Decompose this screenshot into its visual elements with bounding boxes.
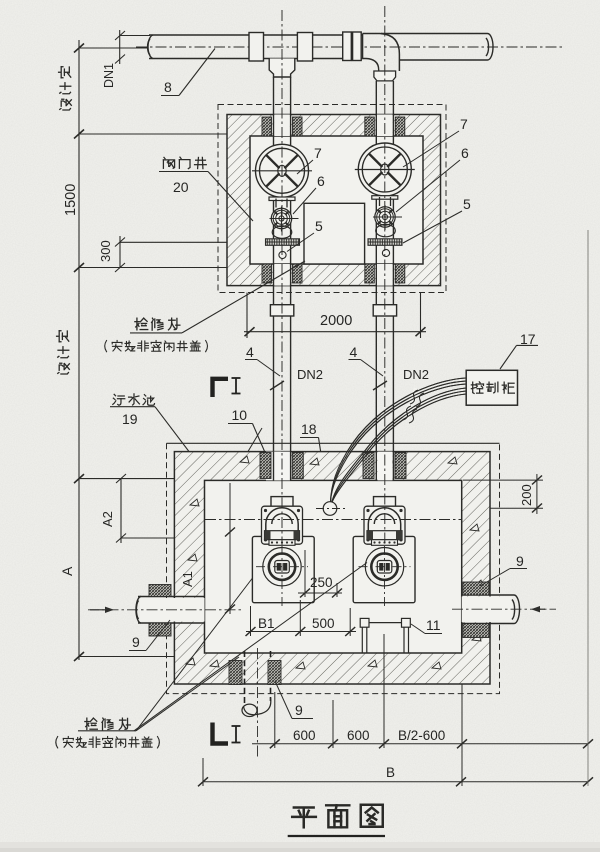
centerline left pipe column xyxy=(281,10,283,545)
section mark I bottom xyxy=(213,723,229,744)
pump clamp plate xyxy=(367,531,402,540)
pump flange plate xyxy=(364,506,405,544)
leaders from bottom inspection label xyxy=(136,657,239,731)
dimension line B xyxy=(198,758,593,786)
drain hole circle below right flange xyxy=(382,249,389,256)
dimension text A xyxy=(59,566,75,576)
valve well cover dashed outline xyxy=(218,105,446,293)
svg-text:A: A xyxy=(59,566,75,576)
label sheji-ding upper xyxy=(59,67,72,110)
pump centerline cross xyxy=(256,566,308,568)
svg-text:2000: 2000 xyxy=(320,313,352,329)
dimension line 600 600 B/2-600 xyxy=(252,634,593,786)
pipe wall crossings into tank xyxy=(274,452,386,481)
dimension text 1500 xyxy=(63,184,79,216)
svg-text:600: 600 xyxy=(293,728,316,743)
pump body circles xyxy=(263,548,301,586)
dimension A1 xyxy=(225,483,235,614)
check valve 6 left xyxy=(275,199,277,208)
label (install non-sealed cover) bottom xyxy=(56,736,58,747)
drain pipe end loop xyxy=(244,698,271,715)
pump centerline cross xyxy=(359,566,411,568)
centerline right pipe column xyxy=(384,6,386,545)
svg-text:DN1: DN1 xyxy=(102,63,116,88)
pump body circles xyxy=(365,548,403,586)
cable entry circle 18 xyxy=(323,502,337,516)
pipe segments inside well xyxy=(274,136,394,264)
svg-text:7: 7 xyxy=(314,145,322,161)
valve well outer wall xyxy=(227,115,441,286)
pipe interiors through well walls xyxy=(274,115,393,286)
svg-text:B/2-600: B/2-600 xyxy=(398,728,445,743)
pump elbow semicircle xyxy=(368,508,400,531)
svg-text:8: 8 xyxy=(164,79,172,95)
tank cover top edge line xyxy=(167,442,500,444)
tank inner wall xyxy=(205,480,462,653)
pump flange plate xyxy=(262,506,303,544)
pipe collar left below well xyxy=(270,305,293,316)
A2 sub-dimension xyxy=(116,474,266,543)
pump discharge collar xyxy=(374,497,396,507)
svg-text:9: 9 xyxy=(132,634,140,650)
drain centerline xyxy=(257,648,259,757)
dimension 2000 xyxy=(244,293,426,338)
manhole rectangle inside well xyxy=(304,203,365,264)
svg-text:1500: 1500 xyxy=(63,184,79,216)
pipe wall packing seals xyxy=(262,117,272,136)
horizontal centerline through elbows xyxy=(205,519,461,521)
packing at tank cover crossings xyxy=(260,453,271,479)
flange 5 right xyxy=(368,239,402,246)
right margin vertical line xyxy=(587,230,589,786)
tank cover dashed outline xyxy=(167,443,500,693)
pipe DN2 left vertical run xyxy=(274,77,291,497)
label (install non-sealed cover) top xyxy=(105,340,107,351)
pipe coupling collar 1 xyxy=(249,33,264,62)
svg-text:4: 4 xyxy=(350,344,358,360)
svg-text:A2: A2 xyxy=(100,511,115,527)
pump guide rail box xyxy=(252,536,314,602)
gate valve 7 right xyxy=(358,143,411,196)
support bracket 11 xyxy=(360,618,410,653)
svg-text:B1: B1 xyxy=(258,616,275,631)
svg-text:5: 5 xyxy=(463,196,471,212)
pipe coupling collar 3 double xyxy=(343,32,352,61)
300 sub-dimension xyxy=(115,236,259,272)
inlet pipe right (9) xyxy=(462,597,513,623)
pump motor box xyxy=(275,561,290,574)
svg-text:11: 11 xyxy=(426,617,441,633)
svg-text:4: 4 xyxy=(246,344,254,360)
svg-text:9: 9 xyxy=(516,553,524,569)
label sheji-ding lower xyxy=(57,331,70,374)
svg-text:20: 20 xyxy=(173,179,189,195)
svg-text:6: 6 xyxy=(461,145,469,161)
elbow socket below xyxy=(374,71,396,81)
svg-text:18: 18 xyxy=(301,421,317,437)
pipe 8 horizontal top main xyxy=(148,34,493,61)
DN1 sub-dimension xyxy=(115,30,150,64)
svg-text:200: 200 xyxy=(519,484,534,506)
pump discharge collar xyxy=(271,497,293,507)
check valve 6 right xyxy=(379,197,381,206)
svg-text:7: 7 xyxy=(460,116,468,132)
svg-text:500: 500 xyxy=(312,616,335,631)
svg-text:600: 600 xyxy=(347,728,370,743)
gate valve 7 left xyxy=(256,144,309,197)
svg-text:250: 250 xyxy=(310,575,333,590)
control cabinet 17 xyxy=(466,370,517,405)
valve well inner wall xyxy=(250,136,423,264)
svg-text:19: 19 xyxy=(122,411,138,427)
pump motor box xyxy=(377,561,392,574)
flow arrow right inlet xyxy=(533,608,545,610)
flange 5 left xyxy=(266,239,300,246)
wire horizontal centerline of top pipe xyxy=(136,46,562,48)
title pingmiantu (plan view) xyxy=(292,808,316,828)
inlet pipe left (9) xyxy=(140,598,205,622)
pump elbow semicircle xyxy=(266,508,298,531)
svg-text:DN2: DN2 xyxy=(403,367,429,382)
label jianxiukong top (inspection hole) xyxy=(135,318,148,330)
label jianxiukong bottom xyxy=(85,718,97,729)
svg-text:5: 5 xyxy=(315,218,323,234)
drain hole circle below left flange xyxy=(279,251,286,258)
label famenjing 20 valve well xyxy=(163,157,174,168)
svg-text:DN2: DN2 xyxy=(297,367,323,382)
pipe coupling collar 2 xyxy=(297,33,312,62)
svg-text:A1: A1 xyxy=(180,571,195,587)
svg-text:10: 10 xyxy=(232,407,248,423)
svg-text:17: 17 xyxy=(520,331,536,347)
drain pipe dashed through bottom wall xyxy=(245,651,271,706)
pump guide rail box xyxy=(353,536,415,602)
concrete triangles in wall band xyxy=(186,456,483,669)
svg-text:300: 300 xyxy=(98,240,113,262)
dimension 250 xyxy=(298,550,342,598)
flow arrow left inlet xyxy=(90,609,112,611)
dimension B1 500 xyxy=(246,600,357,636)
elbow fitting top right xyxy=(363,34,400,72)
tee fitting down branch xyxy=(269,59,295,78)
pipe DN2 right vertical run xyxy=(376,81,393,497)
dimension chain main vertical line left xyxy=(74,40,250,661)
section mark I top xyxy=(213,379,229,397)
dimension 200 right side xyxy=(463,474,543,514)
label wushuichi 19 sewage pool xyxy=(113,394,125,405)
cable break marks xyxy=(402,387,421,420)
pump clamp plate xyxy=(265,531,300,540)
svg-text:B: B xyxy=(386,765,395,780)
cables redrawn over wall band xyxy=(331,378,467,504)
svg-text:9: 9 xyxy=(295,702,303,718)
svg-text:6: 6 xyxy=(317,173,325,189)
tank outer wall with concrete hatch xyxy=(174,452,490,684)
pipe collar right below well xyxy=(373,305,396,316)
packing at drain crossing xyxy=(229,661,242,685)
power cables from cabinet to pumps xyxy=(331,378,467,504)
